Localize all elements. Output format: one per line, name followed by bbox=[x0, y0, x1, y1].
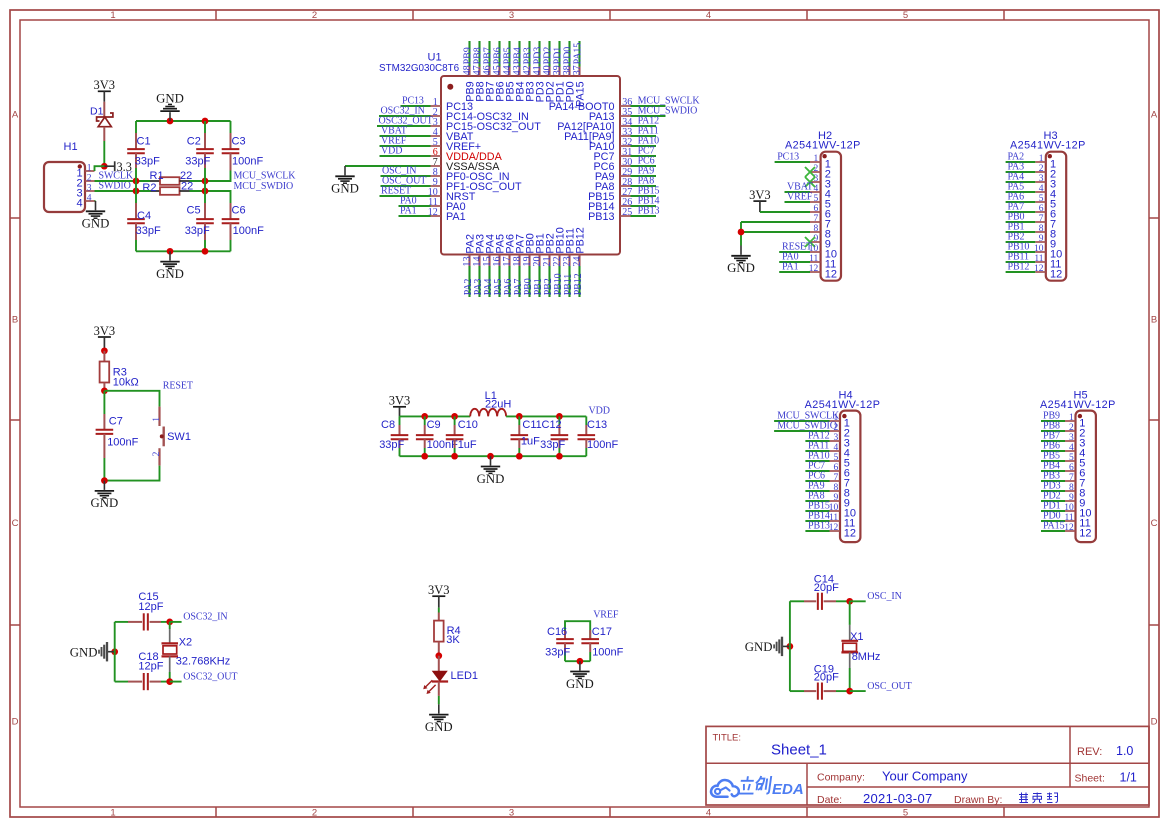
svg-text:2: 2 bbox=[1069, 423, 1074, 433]
capacitor C4 bbox=[127, 191, 161, 251]
U1 pin 8 (PF0-OSC_IN) bbox=[381, 165, 510, 183]
H2 pin 4 bbox=[785, 181, 831, 200]
H3 pin 5 (PA6) bbox=[1006, 191, 1057, 210]
svg-text:PA15: PA15 bbox=[1043, 520, 1065, 531]
wire LED to GND bbox=[438, 696, 440, 704]
svg-text:33pF: 33pF bbox=[136, 225, 161, 237]
wire OSC_OUT bbox=[850, 690, 866, 692]
U1 pin 14 (PA3) bottom bbox=[472, 234, 486, 297]
power flag 3.3 bbox=[104, 160, 132, 174]
capacitor C15 bbox=[115, 591, 170, 630]
svg-text:B: B bbox=[1151, 314, 1157, 325]
svg-text:OSC32_OUT: OSC32_OUT bbox=[183, 671, 237, 682]
svg-text:GND: GND bbox=[331, 182, 359, 196]
H5 pin 2 (PB8) bbox=[1041, 420, 1085, 439]
wire C2-C5 column bbox=[204, 181, 206, 191]
node OSC_OUT bbox=[846, 688, 853, 695]
node below 3V3 bbox=[101, 347, 108, 354]
svg-text:20pF: 20pF bbox=[814, 582, 839, 594]
svg-text:12: 12 bbox=[1050, 269, 1062, 281]
H3 pin 9 (PB2) bbox=[1006, 231, 1057, 250]
wire VREF bottom rail bbox=[565, 660, 590, 662]
svg-text:PB12: PB12 bbox=[1008, 261, 1030, 272]
svg-text:RESET: RESET bbox=[163, 381, 193, 392]
svg-text:4: 4 bbox=[833, 443, 838, 453]
H5 pin 6 (PB4) bbox=[1041, 460, 1085, 479]
svg-text:Sheet_1: Sheet_1 bbox=[771, 742, 827, 759]
capacitor C18 bbox=[115, 651, 170, 690]
capacitor C1 bbox=[127, 121, 160, 181]
svg-text:1uF: 1uF bbox=[458, 439, 477, 451]
svg-text:C16: C16 bbox=[547, 626, 567, 638]
svg-text:10: 10 bbox=[1064, 503, 1074, 513]
svg-text:3V3: 3V3 bbox=[428, 583, 450, 597]
H5 pin 11 (PD0) bbox=[1041, 510, 1091, 529]
svg-text:X1: X1 bbox=[850, 631, 863, 643]
svg-text:2: 2 bbox=[87, 173, 92, 183]
svg-text:STM32G030C8T6: STM32G030C8T6 bbox=[379, 63, 460, 74]
H4 pin 12 (PB13) bbox=[805, 520, 856, 539]
H4 pin 3 (PA12) bbox=[805, 430, 850, 449]
svg-text:C11: C11 bbox=[522, 419, 541, 431]
U1 pin 46 (PB7) top bbox=[482, 41, 496, 102]
svg-text:C8: C8 bbox=[381, 419, 395, 431]
H3 pin 4 (PA5) bbox=[1006, 181, 1057, 200]
H4 pin 5 (PA10) bbox=[805, 450, 850, 469]
crystal X1 bbox=[841, 601, 880, 691]
svg-text:TITLE:: TITLE: bbox=[713, 733, 742, 744]
svg-text:C4: C4 bbox=[137, 210, 151, 222]
capacitor C2 bbox=[185, 121, 214, 181]
svg-text:H1: H1 bbox=[64, 141, 78, 153]
svg-text:PA15: PA15 bbox=[573, 43, 584, 65]
ground GND (8M osc) bbox=[787, 643, 794, 650]
H2 pin 10 bbox=[779, 241, 837, 260]
node H2 GND junction bbox=[738, 229, 745, 236]
capacitor C19 bbox=[790, 664, 850, 700]
svg-text:3: 3 bbox=[509, 807, 514, 818]
svg-text:Drawn By:: Drawn By: bbox=[954, 794, 1002, 806]
LED LED1 bbox=[423, 656, 478, 696]
H4 pin 1 (MCU_SWCLK) bbox=[774, 410, 850, 429]
svg-text:1: 1 bbox=[152, 417, 162, 422]
svg-text:C6: C6 bbox=[232, 205, 246, 217]
capacitor C14 bbox=[790, 574, 850, 610]
H3 pin 10 (PB10) bbox=[1006, 241, 1063, 260]
U1 pin 32 (PA10) bbox=[589, 135, 659, 153]
U1 pin 30 (PC6) bbox=[593, 155, 656, 173]
svg-text:PC13: PC13 bbox=[777, 151, 799, 162]
H2 pin 6 bbox=[810, 204, 831, 221]
U1 pin 10 (NRST) bbox=[380, 185, 476, 203]
svg-text:VDD: VDD bbox=[381, 145, 402, 156]
H2 pin 11 bbox=[779, 251, 836, 270]
wire OSC_IN bbox=[850, 600, 866, 602]
U1 pin 35 (PA13) bbox=[589, 105, 697, 123]
svg-text:100nF: 100nF bbox=[587, 439, 618, 451]
svg-text:9: 9 bbox=[1069, 493, 1074, 503]
node VREF GND bbox=[577, 658, 584, 665]
svg-text:Your Company: Your Company bbox=[882, 769, 968, 784]
svg-text:10: 10 bbox=[1034, 244, 1044, 254]
svg-text:A2541WV-12P: A2541WV-12P bbox=[1010, 140, 1086, 152]
U1 pin 9 (PF1-OSC_OUT) bbox=[381, 175, 522, 193]
H2 pin 3 bbox=[805, 174, 831, 191]
H5 pin 1 (PB9) bbox=[1041, 410, 1085, 429]
wire SWCLK row bbox=[95, 180, 151, 182]
svg-text:1/1: 1/1 bbox=[1120, 770, 1137, 784]
H5 pin 10 (PD1) bbox=[1041, 500, 1092, 519]
svg-text:33pF: 33pF bbox=[545, 646, 570, 658]
svg-text:2021-03-07: 2021-03-07 bbox=[863, 791, 933, 806]
svg-text:PB13: PB13 bbox=[638, 205, 660, 216]
U1 pin 41 (PD3) top bbox=[532, 41, 546, 102]
U1 pin 17 (PA6) bottom bbox=[502, 234, 516, 297]
diode D1 (schottky) bbox=[90, 102, 113, 141]
svg-text:100nF: 100nF bbox=[107, 436, 138, 448]
svg-text:8: 8 bbox=[833, 483, 838, 493]
svg-text:VREF: VREF bbox=[787, 191, 813, 202]
svg-text:12pF: 12pF bbox=[138, 661, 163, 673]
svg-text:6: 6 bbox=[833, 463, 838, 473]
svg-text:4: 4 bbox=[87, 193, 92, 203]
svg-text:24: 24 bbox=[572, 256, 583, 266]
U1 pin 34 (PA12[PA10]) bbox=[557, 115, 659, 132]
U1 pin 38 (PD0) top bbox=[562, 41, 576, 102]
wire VDD filter top rail left bbox=[400, 415, 471, 417]
svg-text:33pF: 33pF bbox=[185, 155, 210, 167]
svg-text:GND: GND bbox=[727, 261, 755, 275]
svg-text:GND: GND bbox=[82, 217, 110, 231]
U1 pin 25 (PB13) bbox=[588, 205, 659, 223]
svg-text:5: 5 bbox=[1039, 194, 1044, 204]
U1 pin 29 (PA9) bbox=[595, 165, 656, 183]
U1 pin 24 (PB12) bottom bbox=[572, 227, 586, 297]
svg-text:Date:: Date: bbox=[817, 794, 842, 806]
capacitor C16 bbox=[545, 626, 574, 661]
svg-text:12: 12 bbox=[809, 264, 819, 274]
ground GND at U1 pin 7 (VSSA) bbox=[344, 166, 346, 175]
svg-text:C: C bbox=[12, 518, 19, 529]
op-amp U1 body (STM32G030C8T6 MCU) bbox=[379, 52, 620, 255]
U1 pin 22 (PB10) bottom bbox=[552, 227, 566, 297]
capacitor C13 bbox=[578, 416, 619, 456]
U1 pin 33 (PA11[PA9]) bbox=[564, 125, 659, 143]
svg-text:GND: GND bbox=[70, 645, 98, 659]
svg-text:20pF: 20pF bbox=[814, 672, 839, 684]
capacitor C7 bbox=[96, 391, 139, 481]
ground GND VREF bbox=[579, 661, 581, 670]
U1 pin 7 (VSSA/SSA) bbox=[345, 157, 500, 173]
svg-text:7: 7 bbox=[1069, 473, 1074, 483]
svg-text:4: 4 bbox=[706, 807, 711, 818]
svg-text:X2: X2 bbox=[179, 636, 192, 648]
wire VREF top rail bbox=[565, 621, 590, 640]
U1 pin 31 (PC7) bbox=[593, 145, 656, 163]
svg-text:5: 5 bbox=[833, 453, 838, 463]
connector H3 bbox=[1010, 130, 1086, 281]
svg-text:A2541WV-12P: A2541WV-12P bbox=[805, 399, 881, 411]
svg-text:100nF: 100nF bbox=[592, 646, 623, 658]
U1 pin 36 (PA14-BOOT0) bbox=[549, 95, 701, 113]
svg-text:100nF: 100nF bbox=[233, 225, 264, 237]
svg-text:2: 2 bbox=[1039, 164, 1044, 174]
node R4-LED bbox=[435, 652, 442, 659]
connector H4 bbox=[805, 389, 881, 542]
svg-text:PA1: PA1 bbox=[446, 211, 466, 223]
svg-text:6: 6 bbox=[1069, 463, 1074, 473]
U1 pin 27 (PB15) bbox=[588, 185, 659, 203]
H3 pin 12 (PB12) bbox=[1006, 261, 1063, 280]
svg-text:VDD: VDD bbox=[589, 405, 610, 416]
H5 pin 4 (PB6) bbox=[1041, 440, 1085, 459]
node OSC32_IN bbox=[166, 619, 173, 626]
U1 pin 12 (PA1) bbox=[399, 205, 466, 223]
svg-text:C12: C12 bbox=[542, 419, 562, 431]
svg-text:3V3: 3V3 bbox=[94, 78, 116, 92]
drawn-by name glyphs (CJK) bbox=[1019, 793, 1058, 803]
svg-text:2: 2 bbox=[152, 451, 162, 456]
svg-text:3: 3 bbox=[833, 433, 838, 443]
svg-text:C13: C13 bbox=[587, 419, 607, 431]
svg-text:GND: GND bbox=[91, 496, 119, 510]
top rail junction nodes bbox=[421, 413, 428, 420]
svg-text:SW1: SW1 bbox=[167, 431, 191, 443]
svg-text:GND: GND bbox=[477, 472, 505, 486]
node C2 top bbox=[202, 118, 209, 125]
wire bottom GND rail bbox=[136, 250, 231, 252]
crystal X2 bbox=[162, 622, 231, 682]
H5 pin 9 (PD2) bbox=[1041, 490, 1085, 509]
svg-text:12: 12 bbox=[829, 523, 839, 533]
svg-text:3V3: 3V3 bbox=[389, 394, 411, 408]
svg-text:3V3: 3V3 bbox=[749, 188, 771, 202]
resistor R2 bbox=[142, 180, 193, 195]
svg-text:8: 8 bbox=[1069, 483, 1074, 493]
node C5 bottom bbox=[202, 248, 209, 255]
capacitor C5 bbox=[185, 191, 214, 251]
node junction at H1 pin1 bbox=[101, 163, 108, 170]
U1 pin 11 (PA0) bbox=[399, 195, 466, 213]
svg-text:D1: D1 bbox=[90, 106, 104, 118]
H2 pin 1 bbox=[775, 151, 831, 170]
wire H2 pin7 to GND bbox=[741, 221, 810, 223]
H3 pin 8 (PB1) bbox=[1006, 221, 1057, 240]
U1 pin 44 (PB5) top bbox=[502, 41, 516, 102]
svg-text:EDA: EDA bbox=[772, 781, 804, 798]
svg-text:33pF: 33pF bbox=[135, 155, 160, 167]
ground GND reset block bbox=[103, 481, 105, 490]
svg-text:33pF: 33pF bbox=[540, 439, 565, 451]
U1 pin 37 (PA15) top bbox=[572, 41, 586, 107]
EasyEDA logo cloud bbox=[711, 780, 739, 797]
svg-text:10: 10 bbox=[829, 503, 839, 513]
svg-text:3: 3 bbox=[509, 10, 514, 21]
svg-text:PB13: PB13 bbox=[588, 211, 614, 223]
H4 pin 11 (PB14) bbox=[805, 510, 855, 529]
ground GND LED bbox=[438, 704, 440, 713]
svg-text:C1: C1 bbox=[137, 135, 151, 147]
capacitor C9 bbox=[416, 416, 458, 456]
node junctions R1/R2 rows bbox=[133, 178, 140, 185]
svg-text:R1: R1 bbox=[150, 170, 164, 182]
svg-text:R2: R2 bbox=[142, 182, 156, 194]
U1 pin 45 (PB6) top bbox=[492, 41, 506, 102]
svg-text:C7: C7 bbox=[109, 415, 123, 427]
svg-text:6: 6 bbox=[814, 204, 819, 214]
H3 pin 3 (PA4) bbox=[1006, 171, 1057, 190]
capacitor C17 bbox=[581, 626, 623, 661]
svg-text:C3: C3 bbox=[232, 135, 246, 147]
svg-text:GND: GND bbox=[425, 720, 453, 734]
svg-text:OSC_IN: OSC_IN bbox=[867, 591, 901, 602]
U1 pin 4 (VBAT) bbox=[380, 125, 474, 143]
svg-text:2: 2 bbox=[312, 10, 317, 21]
node OSC32_OUT bbox=[166, 678, 173, 685]
svg-text:6: 6 bbox=[1039, 204, 1044, 214]
connector H2 bbox=[785, 130, 861, 281]
U1 pin 13 (PA2) bottom bbox=[462, 234, 476, 297]
ground GND below H2 bbox=[740, 246, 742, 255]
svg-text:C2: C2 bbox=[187, 135, 201, 147]
svg-text:Sheet:: Sheet: bbox=[1075, 772, 1105, 784]
H2 pin 12 bbox=[779, 261, 837, 280]
svg-text:PB13: PB13 bbox=[808, 520, 830, 531]
svg-text:PA1: PA1 bbox=[782, 261, 799, 272]
svg-text:REV:: REV: bbox=[1077, 746, 1102, 758]
svg-text:22uH: 22uH bbox=[485, 398, 511, 410]
svg-text:1: 1 bbox=[110, 10, 115, 21]
H2 pin 9 bbox=[805, 234, 831, 251]
svg-text:PA1: PA1 bbox=[400, 205, 417, 216]
resistor R1 bbox=[150, 170, 193, 185]
svg-text:4: 4 bbox=[77, 197, 83, 209]
svg-text:11: 11 bbox=[829, 513, 838, 523]
svg-text:11: 11 bbox=[1034, 254, 1043, 264]
wire SWDIO row bbox=[95, 190, 151, 192]
svg-text:LED1: LED1 bbox=[451, 670, 479, 682]
wire RESET node to SW1 bbox=[104, 391, 159, 407]
H5 pin 3 (PB7) bbox=[1041, 430, 1085, 449]
svg-text:5: 5 bbox=[1069, 453, 1074, 463]
svg-text:C9: C9 bbox=[427, 419, 441, 431]
ground GND filter bbox=[490, 456, 492, 465]
EasyEDA logo text bbox=[737, 776, 771, 794]
H4 pin 6 (PC7) bbox=[805, 460, 850, 479]
capacitor C3 bbox=[222, 121, 264, 171]
svg-text:10kΩ: 10kΩ bbox=[113, 377, 139, 389]
svg-text:1: 1 bbox=[814, 154, 819, 164]
svg-text:A2541WV-12P: A2541WV-12P bbox=[1040, 399, 1116, 411]
H2 pin 8 bbox=[810, 224, 831, 241]
svg-text:B: B bbox=[12, 314, 18, 325]
svg-text:5: 5 bbox=[903, 807, 908, 818]
wire 3V3 to R4 bbox=[438, 608, 440, 613]
svg-text:3V3: 3V3 bbox=[94, 324, 116, 338]
svg-text:2: 2 bbox=[312, 807, 317, 818]
H4 pin 7 (PC6) bbox=[805, 470, 850, 489]
svg-text:PB12: PB12 bbox=[573, 273, 584, 295]
svg-text:C5: C5 bbox=[187, 205, 201, 217]
H4 pin 8 (PA9) bbox=[805, 480, 850, 499]
H2 pin 2 bbox=[805, 164, 831, 181]
U1 pin 26 (PB14) bbox=[588, 195, 659, 213]
H3 pin 7 (PB0) bbox=[1006, 211, 1057, 230]
connector H5 bbox=[1040, 389, 1116, 542]
svg-text:12: 12 bbox=[825, 269, 837, 281]
switch SW1 bbox=[152, 407, 191, 466]
node GND rail reset block bbox=[101, 477, 108, 484]
svg-text:MCU_SWDIO: MCU_SWDIO bbox=[234, 181, 294, 192]
capacitor C8 bbox=[379, 416, 408, 456]
svg-text:33pF: 33pF bbox=[185, 225, 210, 237]
wire MCU_SWDIO row bbox=[136, 190, 151, 192]
svg-text:12: 12 bbox=[844, 528, 856, 540]
svg-text:GND: GND bbox=[566, 677, 594, 691]
wire SW1 to GND rail bbox=[104, 466, 159, 481]
wire top GND rail bbox=[136, 120, 231, 122]
U1 pin 1 (PC13) bbox=[401, 95, 474, 113]
wire MCU_SWCLK row bbox=[136, 180, 150, 182]
svg-text:PB12: PB12 bbox=[575, 227, 587, 253]
svg-text:1: 1 bbox=[87, 163, 92, 173]
svg-text:37: 37 bbox=[572, 65, 583, 75]
svg-text:32.768KHz: 32.768KHz bbox=[176, 656, 230, 668]
H2 pin 5 bbox=[785, 191, 831, 210]
connector H1 bbox=[44, 141, 95, 212]
svg-text:OSC32_IN: OSC32_IN bbox=[183, 612, 227, 623]
wire VDD filter top rail right bbox=[506, 415, 586, 417]
U1 pin 28 (PA8) bbox=[595, 175, 656, 193]
wire H2 pin6 to 3V3 bbox=[760, 211, 810, 213]
U1 pin 40 (PD2) top bbox=[542, 41, 556, 102]
U1 pin 23 (PB11) bottom bbox=[562, 228, 576, 297]
svg-text:9: 9 bbox=[833, 493, 838, 503]
H5 pin 5 (PB5) bbox=[1041, 450, 1085, 469]
wire C1-C4 column bbox=[135, 181, 137, 191]
svg-text:1uF: 1uF bbox=[521, 435, 540, 447]
H4 pin 9 (PA8) bbox=[805, 490, 850, 509]
svg-text:GND: GND bbox=[156, 91, 184, 105]
svg-text:100nF: 100nF bbox=[427, 439, 458, 451]
capacitor C6 bbox=[222, 202, 264, 251]
U1 pin 16 (PA5) bottom bbox=[492, 234, 506, 297]
H5 pin 7 (PB3) bbox=[1041, 470, 1085, 489]
svg-text:U1: U1 bbox=[428, 52, 442, 64]
capacitor C11 bbox=[511, 416, 542, 456]
svg-text:PA15: PA15 bbox=[575, 81, 587, 107]
node OSC_IN bbox=[846, 598, 853, 605]
U1 pin 19 (PB0) bottom bbox=[522, 233, 536, 297]
svg-text:9: 9 bbox=[1039, 234, 1044, 244]
ground GND (32k osc) bbox=[111, 648, 118, 655]
svg-text:11: 11 bbox=[809, 254, 818, 264]
node RESET bbox=[101, 387, 108, 394]
resistor R4 bbox=[434, 613, 461, 656]
svg-text:33pF: 33pF bbox=[379, 439, 404, 451]
H3 pin 6 (PA7) bbox=[1006, 201, 1057, 220]
svg-text:Company:: Company: bbox=[817, 771, 865, 783]
svg-text:4: 4 bbox=[706, 10, 711, 21]
svg-text:4: 4 bbox=[1069, 443, 1074, 453]
U1 pin 18 (PA7) bottom bbox=[512, 234, 526, 297]
H3 pin 2 (PA3) bbox=[1006, 161, 1057, 180]
U1 pin 3 (PC15-OSC32_OUT) bbox=[377, 115, 541, 132]
svg-text:D: D bbox=[12, 716, 19, 727]
wire OSC32_OUT bbox=[170, 681, 182, 683]
U1 pin 47 (PB8) top bbox=[472, 41, 486, 102]
svg-text:3: 3 bbox=[87, 183, 92, 193]
